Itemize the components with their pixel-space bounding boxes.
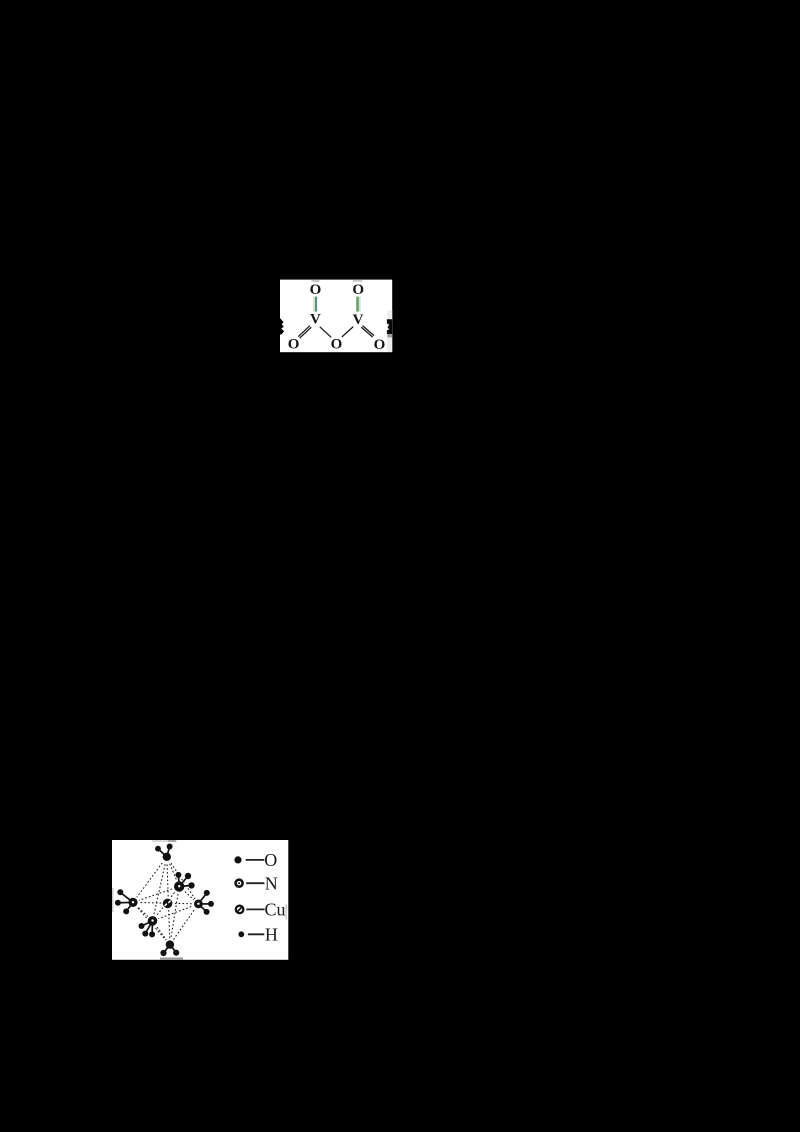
- crop mark above right O: [353, 280, 363, 282]
- svg-text:O: O: [264, 850, 277, 870]
- svg-text:V: V: [353, 312, 364, 328]
- double bond V to bottom-left O: [298, 326, 311, 339]
- edge B-E: [179, 887, 198, 904]
- edge F-G: [153, 921, 170, 945]
- figure 1 white panel: [280, 280, 392, 353]
- legend row Cu symbol: [235, 899, 287, 919]
- svg-text:Cu: Cu: [264, 899, 285, 919]
- edge B-C: [133, 887, 179, 903]
- atom G water oxygen bottom: [160, 939, 179, 956]
- top gray crop bar: [152, 840, 168, 842]
- atom F ammonia nitrogen lower-left: [139, 915, 159, 938]
- single bond center O to V right: [342, 327, 354, 337]
- atom V left: [310, 311, 321, 327]
- internal axis C-E: [133, 902, 198, 904]
- bottom gray crop bar: [160, 958, 183, 960]
- svg-text:O: O: [352, 282, 364, 298]
- double bond V right to bottom-right O: [361, 326, 374, 338]
- svg-text:O: O: [374, 337, 386, 353]
- right cropped bracket mark: [387, 319, 392, 334]
- edge C-F: [133, 902, 153, 921]
- atom C ammonia nitrogen left: [115, 889, 139, 914]
- edge A-F: [153, 857, 167, 921]
- atom O top-right: [352, 282, 364, 298]
- svg-text:H: H: [265, 924, 278, 944]
- atom O bottom-center: [331, 336, 343, 352]
- atom V right: [353, 312, 364, 328]
- svg-text:O: O: [288, 337, 300, 353]
- atom O bottom-left: [288, 337, 300, 353]
- edge B-G: [170, 887, 179, 945]
- edge A-B: [167, 857, 179, 887]
- legend row O symbol: [234, 850, 277, 870]
- atom O bottom-right: [374, 337, 386, 353]
- double bond V=O right vertical (mint line): [359, 297, 361, 312]
- left cropped bracket mark: [280, 318, 284, 335]
- edge E-F: [153, 904, 199, 921]
- figure 2 white panel: [112, 840, 288, 960]
- left gray crop bar: [112, 888, 114, 912]
- atom B ammonia nitrogen upper-right: [173, 872, 195, 893]
- svg-text:O: O: [310, 282, 322, 298]
- internal axis B-F: [153, 887, 180, 921]
- edge A-E: [167, 857, 199, 904]
- atom E ammonia nitrogen right: [192, 890, 214, 915]
- single bond V left to center O: [320, 327, 331, 338]
- svg-text:N: N: [265, 873, 278, 893]
- atom O top-left: [310, 282, 322, 298]
- double bond V=O left vertical (pale line): [313, 297, 315, 312]
- atom D copper center: [161, 897, 173, 909]
- right edge gray column: [387, 311, 392, 353]
- right gray stub under bracket: [387, 334, 392, 337]
- edge C-G: [133, 902, 170, 944]
- edge E-G: [170, 904, 199, 945]
- double bond V=O left vertical (teal line): [315, 297, 317, 312]
- internal axis A-G: [167, 857, 170, 945]
- legend row H symbol: [238, 924, 277, 944]
- svg-text:V: V: [310, 311, 321, 327]
- octahedron dashed edges: [133, 857, 198, 945]
- atom A water oxygen top: [155, 844, 173, 863]
- double bond V=O right vertical (green line): [356, 297, 359, 312]
- legend row N symbol: [234, 873, 277, 893]
- svg-text:O: O: [331, 336, 343, 352]
- crop mark above left O: [312, 280, 320, 282]
- edge A-C: [133, 857, 167, 903]
